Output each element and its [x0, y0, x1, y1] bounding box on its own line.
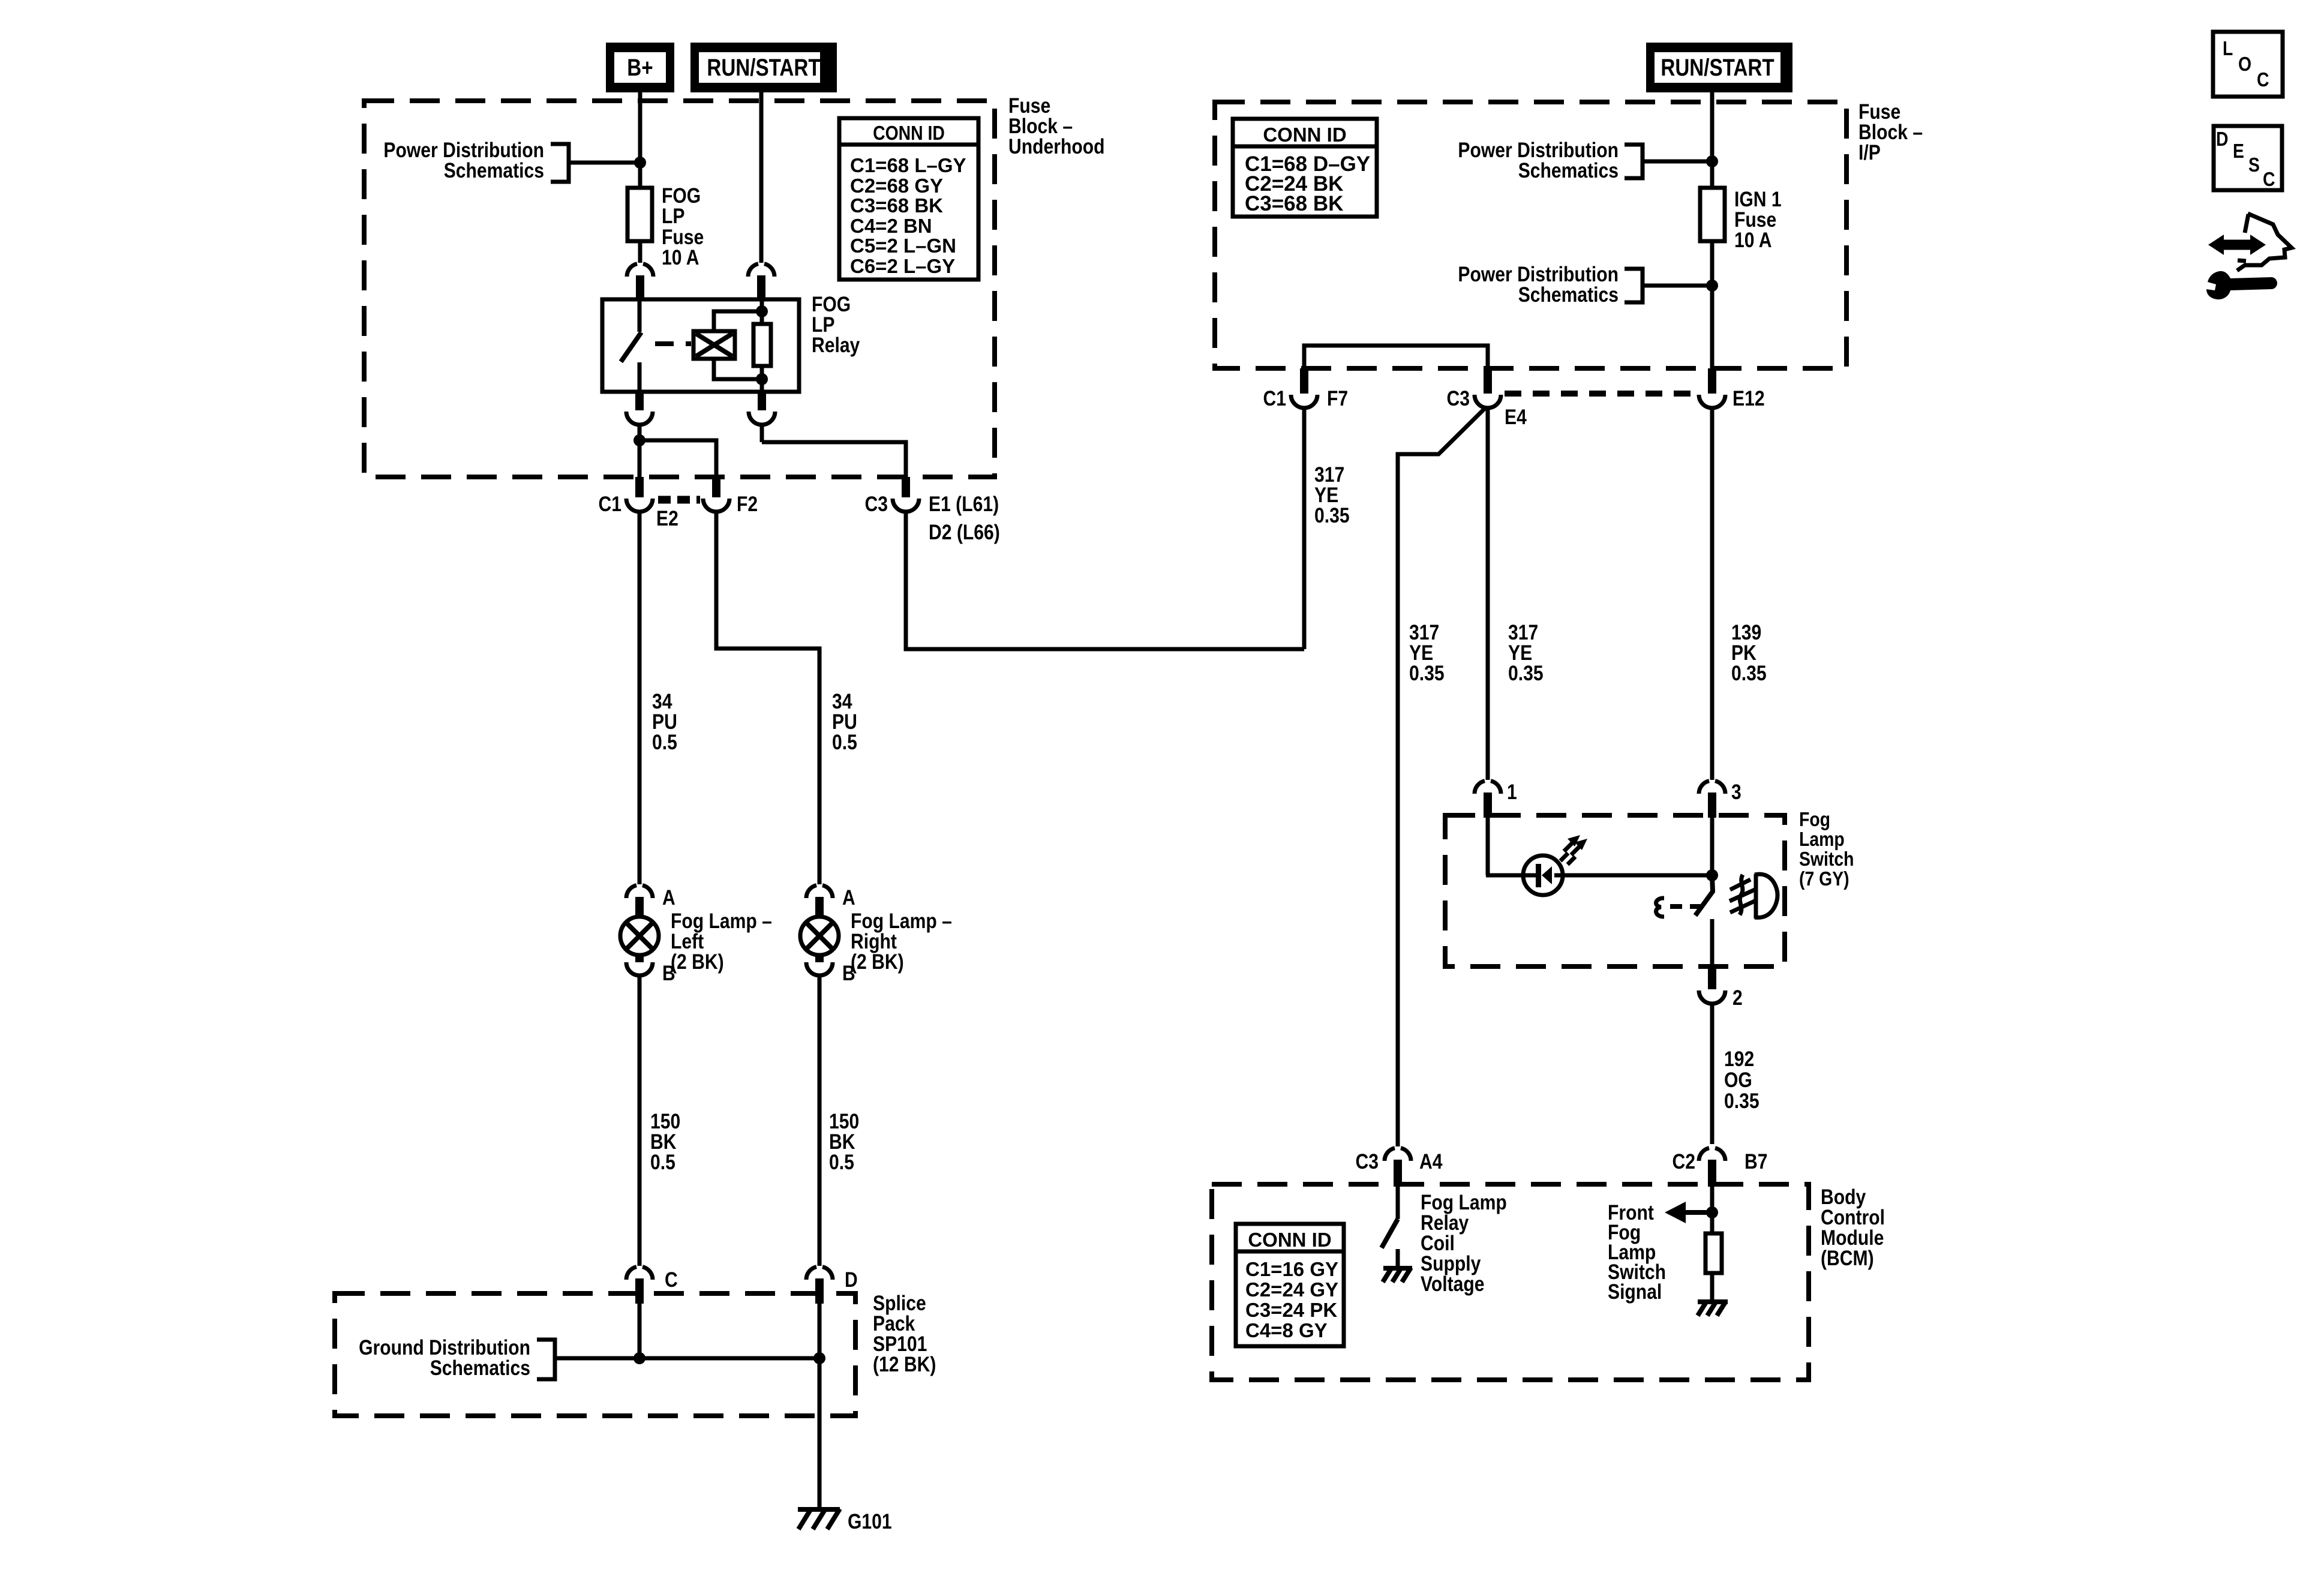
connector pin 1 fog lamp switch: [1475, 781, 1485, 794]
connector below relay left: [635, 392, 644, 410]
fog lamp left symbol: [620, 917, 659, 955]
svg-text:F7: F7: [1327, 387, 1348, 410]
svg-text:LP: LP: [662, 205, 685, 228]
svg-text:Schematics: Schematics: [444, 159, 544, 182]
svg-text:CONN ID: CONN ID: [873, 122, 945, 144]
wire C3 E1 over to right section: [906, 513, 1304, 649]
svg-text:3: 3: [1731, 781, 1742, 804]
wire RUN/START down: [1710, 92, 1715, 188]
svg-text:OG: OG: [1724, 1068, 1752, 1092]
svg-text:B+: B+: [627, 55, 653, 81]
svg-text:E: E: [2233, 140, 2244, 162]
svg-text:C3=24 PK: C3=24 PK: [1245, 1299, 1337, 1321]
svg-text:A: A: [842, 886, 855, 909]
svg-text:C2=68 GY: C2=68 GY: [850, 175, 943, 197]
svg-text:C1: C1: [1263, 387, 1287, 410]
indicator LED symbol: [1523, 855, 1563, 895]
wire C down inside splice pack: [638, 1304, 642, 1358]
wire LED row: [1486, 873, 1537, 878]
conn id table fuse block underhood: [839, 118, 978, 280]
wire B+ down to fuse: [638, 92, 642, 188]
connector C3 E1(L61) D2(L66): [902, 477, 910, 497]
ground chassis symbol (BCM): [1698, 1299, 1728, 1304]
connector pin A lamp right: [806, 885, 816, 898]
connector pin B lamp left: [635, 955, 644, 962]
svg-text:C3: C3: [865, 493, 888, 516]
LOC legend box: [2213, 32, 2283, 97]
svg-text:D2 (L66): D2 (L66): [929, 521, 1000, 544]
svg-text:C6=2 L–GY: C6=2 L–GY: [850, 255, 955, 277]
svg-text:Relay: Relay: [812, 334, 860, 357]
wire relay right to C3 drop: [762, 442, 906, 477]
wire lamp left to splice: [638, 977, 642, 1266]
svg-text:D: D: [2216, 128, 2229, 150]
relay switch blade: [621, 332, 641, 362]
node junction B+ / power distribution tap: [634, 157, 646, 169]
svg-text:RUN/START: RUN/START: [707, 55, 820, 81]
svg-text:C5=2 L–GN: C5=2 L–GN: [850, 235, 956, 257]
wire bracket1 to wire: [1643, 160, 1712, 164]
wire E12 down to switch pin 3: [1710, 409, 1715, 780]
connector pin A lamp left: [626, 885, 636, 898]
node splice junction D: [813, 1352, 825, 1364]
wire coil top branch: [714, 311, 762, 331]
wire splice bus: [555, 1356, 819, 1361]
svg-text:C: C: [2263, 168, 2275, 190]
svg-text:(12 BK): (12 BK): [873, 1353, 936, 1376]
wire lamp right to splice: [818, 977, 822, 1266]
power distribution schematics bracket (right 2): [1625, 269, 1643, 302]
driver lower contact: [1396, 1249, 1400, 1268]
navigation icon wrench: [2206, 271, 2277, 299]
svg-text:10 A: 10 A: [1734, 229, 1772, 252]
node junction power distribution tap 1: [1706, 155, 1718, 167]
relay coil box with X: [693, 331, 735, 359]
wire F7 down to long wire: [1302, 409, 1307, 649]
svg-text:I/P: I/P: [1858, 141, 1881, 164]
connector pin B lamp right: [815, 955, 824, 962]
svg-text:Schematics: Schematics: [1518, 283, 1619, 307]
connector C1 F7: [1300, 368, 1308, 394]
conn id table fuse block I/P: [1233, 119, 1377, 217]
wire junction down to C1: [638, 440, 642, 477]
fuse block I/P dashed box: [1215, 102, 1846, 368]
svg-text:C1=68 L–GY: C1=68 L–GY: [850, 154, 966, 176]
svg-text:A4: A4: [1419, 1150, 1443, 1173]
ground chassis symbol (driver): [1383, 1266, 1412, 1271]
wire bracket to B+ wire: [569, 161, 640, 165]
svg-text:2: 2: [1733, 986, 1743, 1010]
svg-text:0.35: 0.35: [1314, 504, 1350, 527]
power distribution schematics bracket (right 1): [1625, 145, 1643, 178]
svg-text:C2: C2: [1673, 1150, 1696, 1173]
svg-text:L: L: [2223, 37, 2233, 59]
svg-text:Lamp: Lamp: [1799, 828, 1845, 850]
connector E12: [1708, 368, 1716, 394]
connector C1 E2: [635, 477, 644, 497]
connector pin D splice: [806, 1267, 816, 1280]
wire relay right pin: [760, 299, 764, 324]
switch lower contact: [1710, 919, 1715, 966]
wire bracket2 to wire: [1643, 284, 1712, 288]
connector C3 E4: [1484, 368, 1492, 394]
splice pack dashed box: [335, 1293, 855, 1416]
node coil bottom junction: [756, 373, 768, 385]
svg-text:0.5: 0.5: [652, 731, 677, 754]
svg-text:Underhood: Underhood: [1008, 135, 1105, 158]
svg-text:Signal: Signal: [1608, 1280, 1662, 1304]
svg-text:G101: G101: [848, 1510, 892, 1533]
svg-text:0.35: 0.35: [1508, 662, 1544, 685]
svg-text:Voltage: Voltage: [1421, 1272, 1485, 1296]
svg-text:0.35: 0.35: [1409, 662, 1445, 685]
svg-text:S: S: [2248, 154, 2260, 176]
navigation icon pointer outline: [2245, 214, 2248, 233]
DESC legend box: [2214, 126, 2282, 190]
ground G101 symbol: [798, 1507, 840, 1512]
LED emission arrows: [1560, 843, 1572, 861]
svg-text:C1=16 GY: C1=16 GY: [1245, 1258, 1338, 1280]
connector pin C splice: [626, 1267, 636, 1280]
power feed B+ box: [606, 43, 674, 92]
fuse IGN 1 10A: [1700, 188, 1725, 241]
svg-text:1: 1: [1507, 781, 1517, 804]
svg-text:E2: E2: [656, 507, 678, 530]
svg-text:(2 BK): (2 BK): [851, 950, 904, 974]
conn id table BCM: [1236, 1224, 1344, 1346]
dashed link E4-E12: [1505, 391, 1697, 397]
dashed link C1-F2: [658, 496, 700, 504]
driver switch blade (relay coil supply): [1382, 1219, 1398, 1248]
wire D down to ground: [818, 1304, 822, 1509]
wire fuse to connector: [638, 241, 642, 263]
svg-text:C4=8 GY: C4=8 GY: [1245, 1319, 1328, 1341]
svg-text:C: C: [665, 1268, 678, 1292]
relay switch wire upper: [638, 299, 642, 332]
svg-text:C3=68 BK: C3=68 BK: [850, 194, 943, 217]
relay FOG LP box: [602, 299, 799, 392]
svg-text:C3: C3: [1447, 387, 1470, 410]
fuse FOG LP 10A: [627, 188, 652, 241]
fog lamp icon: [1754, 874, 1758, 918]
node junction below relay: [633, 434, 645, 446]
wire fuse down: [1710, 241, 1715, 368]
svg-text:C4=2 BN: C4=2 BN: [850, 215, 932, 237]
wire E4 diagonal branch to BCM A4: [1398, 407, 1486, 1146]
wire resistor to ground: [1710, 1273, 1715, 1302]
relay switch lower contact wire: [638, 362, 642, 392]
svg-text:C1: C1: [599, 493, 622, 516]
connector F2: [712, 477, 720, 497]
svg-text:C3=68 BK: C3=68 BK: [1245, 192, 1343, 215]
wire RUN/START down to relay connector: [759, 92, 764, 263]
node junction B7: [1706, 1206, 1718, 1218]
resistor BCM signal: [1706, 1233, 1722, 1273]
wire B7 into BCM: [1710, 1187, 1715, 1233]
svg-text:(7 GY): (7 GY): [1799, 867, 1849, 890]
switch actuator dashed link: [1670, 904, 1706, 909]
connector male above relay coil: [748, 264, 758, 277]
svg-text:E4: E4: [1505, 406, 1527, 429]
svg-text:C3: C3: [1356, 1150, 1379, 1173]
svg-text:D: D: [845, 1268, 858, 1292]
wire F2 down and over to lamp right: [716, 513, 819, 884]
wire E2 down to lamp left: [638, 513, 642, 884]
wire pin3 down to switch: [1710, 818, 1715, 875]
wire pin2 down to BCM B7: [1710, 1005, 1715, 1144]
svg-text:(BCM): (BCM): [1821, 1247, 1874, 1270]
wire E4 down to switch pin 1: [1486, 409, 1490, 780]
ground distribution schematics bracket: [537, 1340, 555, 1379]
connector pin 2 fog lamp switch: [1708, 966, 1716, 989]
svg-text:(2 BK): (2 BK): [671, 950, 724, 974]
relay actuator dashed link: [655, 341, 691, 346]
wire pin1 down to LED: [1486, 818, 1490, 875]
svg-text:RUN/START: RUN/START: [1661, 55, 1774, 81]
svg-text:10 A: 10 A: [662, 246, 699, 269]
connector male below fuse: [627, 264, 637, 277]
svg-text:Switch: Switch: [1799, 848, 1854, 870]
switch blade fog lamp switch: [1695, 876, 1713, 915]
svg-text:0.35: 0.35: [1731, 662, 1767, 685]
power feed RUN/START box (left): [690, 43, 837, 92]
svg-text:0.5: 0.5: [829, 1151, 854, 1174]
svg-text:B7: B7: [1744, 1150, 1768, 1173]
svg-text:B: B: [842, 962, 855, 985]
svg-text:0.5: 0.5: [832, 731, 857, 754]
svg-text:A: A: [662, 886, 675, 909]
svg-text:Fog: Fog: [1799, 808, 1830, 830]
svg-text:O: O: [2238, 53, 2251, 75]
svg-text:192: 192: [1724, 1047, 1754, 1071]
power distribution schematics bracket (left): [551, 144, 569, 182]
wire internal F7 to E4 loop: [1304, 346, 1488, 368]
node coil top junction: [756, 305, 768, 317]
svg-text:Schematics: Schematics: [430, 1356, 530, 1380]
svg-text:CONN ID: CONN ID: [1248, 1229, 1331, 1251]
node splice junction C: [633, 1352, 645, 1364]
svg-text:CONN ID: CONN ID: [1263, 124, 1346, 146]
fog lamp right symbol: [800, 917, 839, 955]
connector C2 B7: [1699, 1148, 1709, 1161]
svg-text:0.5: 0.5: [650, 1151, 675, 1174]
fog lamp switch dashed box: [1445, 815, 1785, 966]
svg-text:Schematics: Schematics: [1518, 159, 1619, 182]
wire coil bottom branch: [714, 359, 762, 379]
BCM dashed box: [1212, 1184, 1809, 1380]
node junction LED/switch: [1706, 869, 1718, 881]
svg-text:C2=24 GY: C2=24 GY: [1245, 1278, 1338, 1301]
svg-text:C: C: [2257, 68, 2269, 91]
node junction power distribution tap 2: [1706, 280, 1718, 292]
svg-text:0.35: 0.35: [1724, 1089, 1759, 1113]
wire junction to F2 drop: [639, 440, 716, 477]
connector pin 3 fog lamp switch: [1699, 781, 1709, 794]
connector below relay right: [758, 392, 766, 410]
power feed RUN/START box (right): [1646, 43, 1792, 92]
wire A4 into BCM: [1396, 1187, 1400, 1219]
svg-text:F2: F2: [737, 493, 758, 516]
svg-text:E1 (L61): E1 (L61): [929, 493, 999, 516]
switch actuator curl: [1656, 898, 1664, 917]
svg-text:B: B: [662, 962, 675, 985]
relay coil resistor: [753, 324, 771, 366]
svg-text:E12: E12: [1733, 387, 1765, 410]
signal arrow front fog lamp switch: [1683, 1210, 1712, 1215]
fuse block underhood dashed box: [364, 101, 995, 477]
navigation icon double arrow: [2221, 240, 2253, 250]
connector C3 A4: [1385, 1148, 1395, 1161]
